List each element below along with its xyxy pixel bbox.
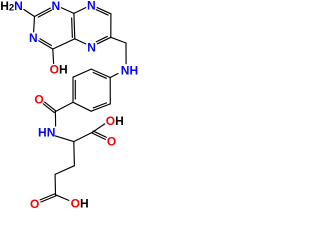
- bond C9-N10: [125, 43, 127, 64]
- bond C3'-C2' (benzene): [73, 69, 91, 77]
- bond N12-C13 (alpha carbon): [55, 136, 73, 142]
- bond C1'-C11 (to amide carbonyl): [55, 102, 73, 111]
- svg-text:HN: HN: [38, 125, 55, 139]
- bond C8a-N8: [74, 8, 86, 14]
- bond C13-C15 (beta methylene): [73, 142, 76, 166]
- svg-text:OH: OH: [71, 197, 89, 211]
- double bond C2=N1: [35, 8, 51, 16]
- svg-text:NH: NH: [121, 64, 138, 78]
- svg-text:OH: OH: [50, 63, 68, 77]
- bond C6-C9 (methylene): [111, 37, 126, 43]
- bond C2-N3: [33, 17, 36, 32]
- svg-text:H2N: H2N: [0, 0, 23, 14]
- double bond C2'=C1' (benzene): [72, 77, 74, 102]
- double bond C4'=C3' (benzene): [91, 69, 110, 77]
- double bond C8a=C4a (ring fusion): [73, 13, 76, 38]
- svg-text:O: O: [30, 197, 39, 211]
- bond C17-OH (gamma carboxyl hydroxyl): [56, 195, 69, 201]
- bond C4-C4a: [53, 39, 75, 49]
- bond C1'-C6' (benzene): [73, 102, 91, 111]
- bond C7-C6: [110, 14, 112, 38]
- bond C13-C14 (alpha carboxyl): [74, 132, 93, 142]
- double bond C6=N5: [97, 37, 110, 44]
- svg-text:N: N: [51, 0, 60, 13]
- bond C4-O (hydroxyl): [52, 49, 55, 63]
- svg-text:OH: OH: [106, 114, 124, 128]
- svg-text:N: N: [87, 40, 96, 54]
- double bond N3=C4: [39, 41, 53, 49]
- double bond N8=C7: [97, 8, 111, 14]
- bond C16-C17 (gamma carboxyl): [54, 174, 56, 194]
- bond C15-C16 (gamma methylene): [55, 166, 74, 175]
- bond C14-OH (alpha carboxyl hydroxyl): [93, 124, 105, 132]
- double bond C17=O (gamma carboxyl): [40, 194, 55, 200]
- bond N10-C4' (to benzene): [110, 73, 118, 77]
- bond N2-C2 (amine to ring): [24, 10, 35, 17]
- bond C5'-C4' (benzene): [109, 78, 111, 104]
- bond N1-C8a: [61, 8, 73, 14]
- bond C4a-N5: [75, 39, 86, 44]
- bond C11-N12 (amide): [54, 112, 56, 126]
- double bond C14=O (alpha carboxyl): [92, 133, 105, 139]
- double bond C6'=C5' (benzene): [91, 104, 110, 111]
- svg-text:O: O: [107, 135, 116, 149]
- svg-text:N: N: [29, 31, 38, 45]
- svg-text:N: N: [87, 0, 96, 13]
- double bond C11=O (amide carbonyl): [45, 102, 56, 111]
- svg-text:O: O: [34, 93, 43, 107]
